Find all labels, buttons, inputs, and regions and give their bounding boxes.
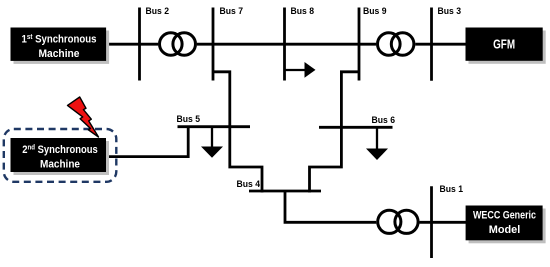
transformer T2 [376,31,415,57]
transformer T1 [158,31,197,57]
wire Bus7 to Bus4 (line 7-5-4) [213,72,262,193]
svg-text:Bus 7: Bus 7 [220,6,244,16]
svg-text:GFM: GFM [493,36,515,51]
transformer T3 [376,209,419,235]
svg-text:Model: Model [489,224,521,236]
svg-text:Machine: Machine [40,159,80,171]
wire Bus9 to Bus4 (line 9-6-4) [310,72,360,193]
load arrow at Bus 5 [201,127,223,158]
svg-text:Bus 3: Bus 3 [438,6,462,16]
bus 5 [178,125,251,128]
WECC Generic Model box [466,206,546,244]
bus 3 [430,8,433,81]
svg-text:Bus 8: Bus 8 [291,6,315,16]
svg-text:Bus 6: Bus 6 [372,115,396,125]
svg-text:Bus 4: Bus 4 [237,179,261,189]
load arrow at Bus 6 [366,127,388,160]
svg-text:Bus 2: Bus 2 [146,6,170,16]
bus 4 [249,190,321,193]
bus 8 [283,8,286,81]
fault lightning bolt [68,97,99,137]
generator box 2nd Synchronous Machine [11,138,110,175]
bus 1 [430,186,433,258]
wire main line Bus2-Bus3 [106,43,466,46]
wire 2nd machine to Bus 5 [106,127,188,157]
generator box 1st Synchronous Machine [11,28,110,64]
power flow arrow at Bus 8 [285,62,316,78]
svg-text:WECC Generic: WECC Generic [473,210,536,222]
svg-text:Machine: Machine [39,48,80,60]
fault dashed outline around 2nd machine [4,129,117,182]
svg-text:1st Synchronous: 1st Synchronous [22,32,97,46]
GFM box [466,28,546,64]
bus 9 [358,8,361,81]
bus 7 [212,8,215,81]
wire Bus4 to WECC via T3 [285,192,466,222]
bus 2 [138,8,141,81]
svg-text:Bus 1: Bus 1 [440,184,464,194]
svg-text:Bus 5: Bus 5 [177,114,201,124]
svg-text:Bus 9: Bus 9 [363,6,387,16]
bus 6 [319,126,393,129]
